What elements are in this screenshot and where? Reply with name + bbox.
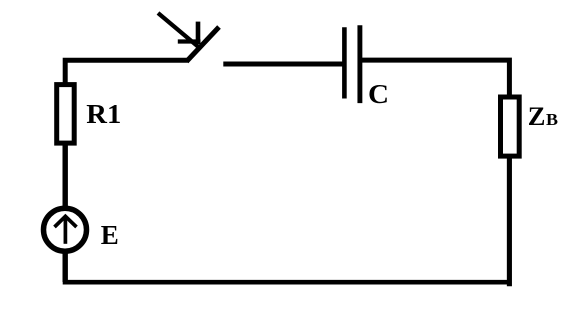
wire: top-right segment with corner to right branch <box>360 60 510 97</box>
switch S1 actuating arrow shaft <box>158 13 199 47</box>
resistor Zv (load impedance) <box>501 97 520 156</box>
wire: right vertical lower segment <box>507 156 512 286</box>
switch S1 arrowhead vertical barb <box>196 22 201 44</box>
svg-text:Z: Z <box>528 101 546 131</box>
switch S1 arrowhead horizontal barb <box>178 39 201 43</box>
svg-text:C: C <box>368 78 389 109</box>
capacitor C left plate <box>342 27 347 98</box>
source E arrow shaft <box>64 218 68 244</box>
svg-text:В: В <box>546 110 558 129</box>
switch S1 blade (open, tilted) <box>187 27 220 62</box>
svg-text:R1: R1 <box>86 98 121 129</box>
wire: bottom segment <box>63 280 512 285</box>
svg-text:E: E <box>101 219 119 250</box>
source E arrowhead <box>55 216 77 227</box>
wire: left vertical between R1 and E <box>62 143 67 209</box>
resistor R1 <box>57 85 74 144</box>
capacitor C right plate <box>357 25 362 103</box>
source E circle <box>44 208 87 251</box>
wire: top-left horizontal segment with corner to left branch <box>65 60 188 84</box>
wire: top-middle segment from switch to capacitor <box>223 62 344 67</box>
wire: left vertical below source E <box>62 252 67 282</box>
